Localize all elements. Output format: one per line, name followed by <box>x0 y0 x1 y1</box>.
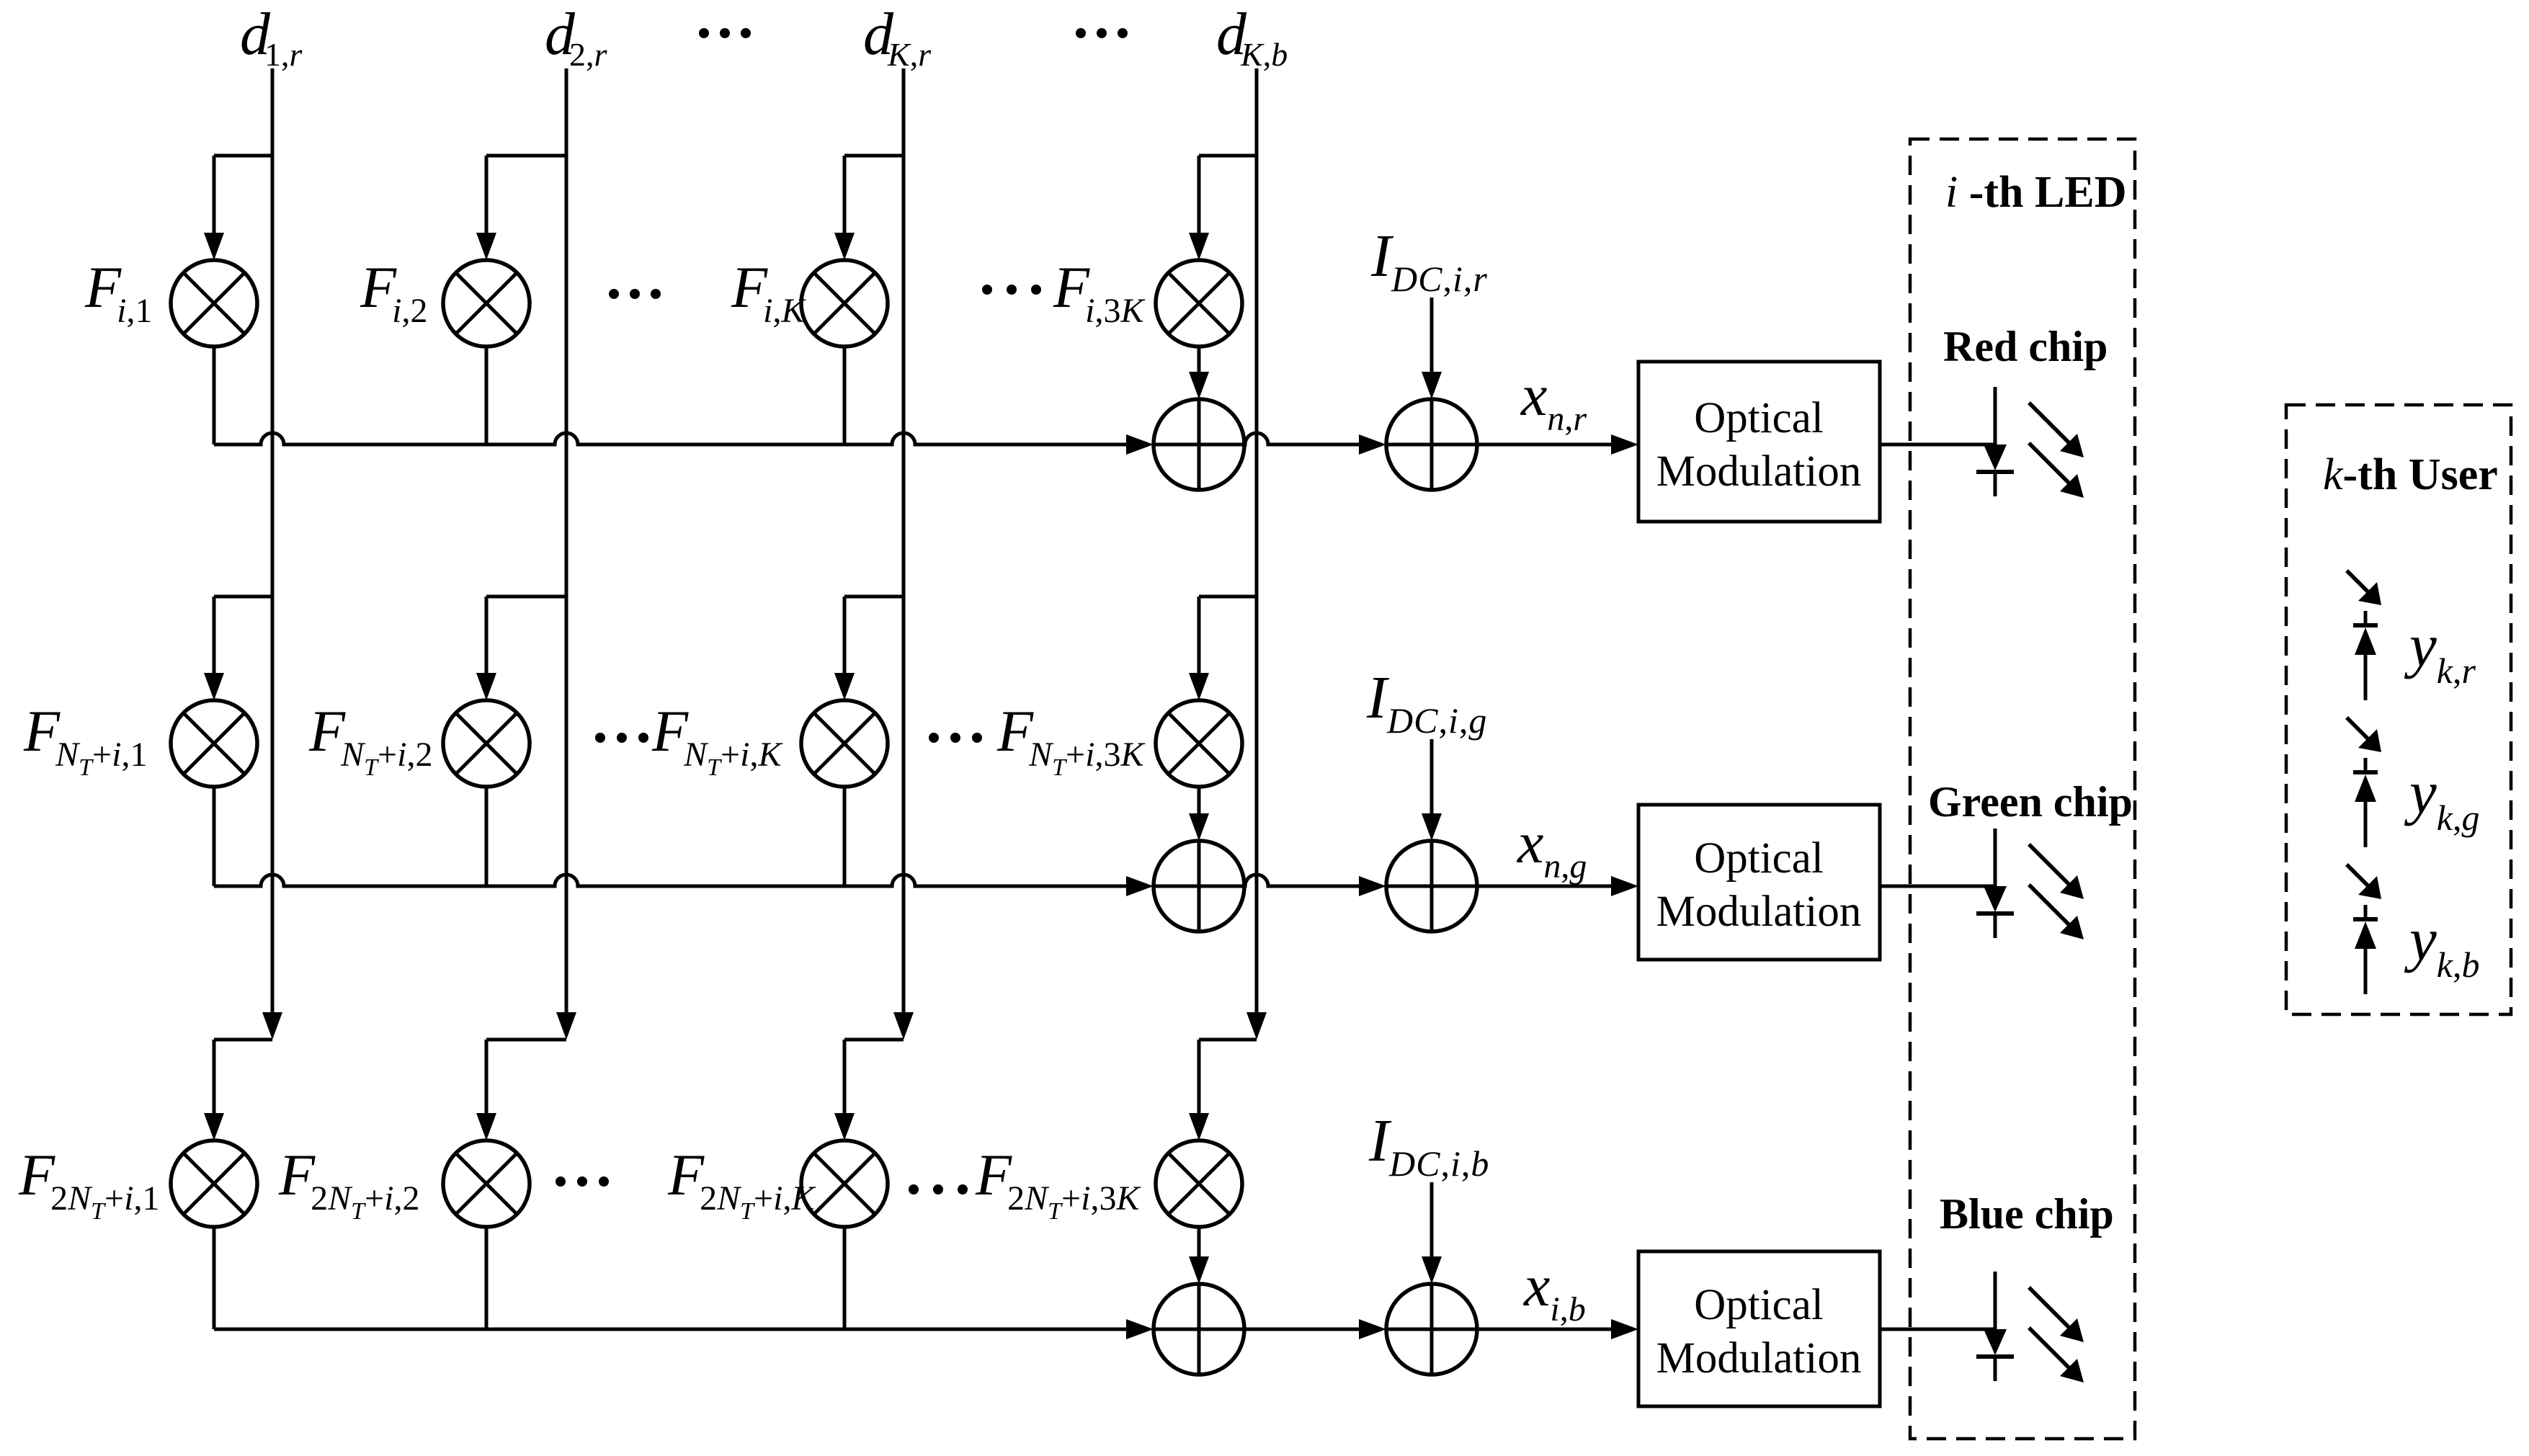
label i-th LED <box>1945 168 2127 217</box>
svg-text:Modulation: Modulation <box>1656 447 1862 496</box>
label F_i,K <box>731 254 806 330</box>
wire I_DC input into adder row1 <box>1422 298 1442 399</box>
label F_i,1 <box>84 254 152 330</box>
dots between d_K,r and d_K,b <box>1076 28 1128 38</box>
wire d1,r vertical input line <box>262 68 282 1040</box>
multiplier F_NT+i,K <box>801 700 888 787</box>
dots row3 right <box>909 1184 968 1194</box>
summer row3 <box>1154 1284 1244 1375</box>
svg-text:IDC,i,r: IDC,i,r <box>1370 223 1488 299</box>
node d_2,r label <box>545 1 608 73</box>
svg-text:Modulation: Modulation <box>1656 888 1862 936</box>
wire branch row1 col1 from d-line into multiplier <box>204 156 272 260</box>
wire optical modulation row1 output to LED <box>1880 443 1995 447</box>
label Red chip <box>1943 323 2107 370</box>
svg-text:d2,r: d2,r <box>545 1 608 73</box>
svg-text:FNT+i,K: FNT+i,K <box>651 698 783 781</box>
svg-text:Green chip: Green chip <box>1928 778 2133 826</box>
svg-text:IDC,i,g: IDC,i,g <box>1366 664 1487 741</box>
svg-text:F2NT+i,3K: F2NT+i,3K <box>975 1142 1141 1225</box>
svg-text:dK,b: dK,b <box>1216 1 1288 73</box>
wire summer3 to adder3 <box>1244 1319 1386 1339</box>
block Optical Modulation row3 <box>1638 1251 1880 1406</box>
svg-text:Optical: Optical <box>1694 1281 1824 1329</box>
wire adder row3 to optical modulation box <box>1477 1319 1638 1339</box>
label F_NT+i,2 <box>308 698 432 781</box>
wire multiplier F_NT+i,2 output down to bus <box>485 787 489 886</box>
summer row1 <box>1154 399 1244 490</box>
svg-text:k-th User: k-th User <box>2323 450 2498 499</box>
multiplier F_i,1 <box>171 260 257 347</box>
wire dK,r vertical input line <box>893 68 914 1040</box>
svg-text:xn,g: xn,g <box>1517 810 1587 885</box>
wire branch row1 col2 from d-line into multiplier <box>476 156 566 260</box>
svg-text:yk,g: yk,g <box>2404 759 2479 838</box>
multiplier F_2NT+i,K <box>801 1140 888 1227</box>
svg-text:xn,r: xn,r <box>1520 362 1587 438</box>
svg-text:Optical: Optical <box>1694 834 1824 883</box>
svg-text:yk,r: yk,r <box>2404 612 2476 691</box>
wire multiplier F_i,1 output down to bus <box>213 347 216 445</box>
LED green chip light arrows <box>2029 844 2084 939</box>
wire bus row1 collecting line with hops <box>214 433 1154 455</box>
wire multiplier F_i,2 output down to bus <box>485 347 489 445</box>
svg-text:F2NT+i,2: F2NT+i,2 <box>278 1142 419 1225</box>
label F_i,2 <box>360 254 427 330</box>
dots row2 right <box>929 733 982 743</box>
label F_i,3K <box>1053 254 1146 330</box>
label Green chip <box>1928 778 2133 826</box>
wire I_DC input into adder row3 <box>1422 1182 1442 1284</box>
LED red chip diode <box>1976 387 2014 496</box>
label y_k,r <box>2404 612 2476 691</box>
wire I_DC input into adder row2 <box>1422 739 1442 841</box>
label I_DC,i,r <box>1370 223 1488 299</box>
node d_K,r label <box>863 1 932 73</box>
wire d2,r vertical input line <box>556 68 576 1040</box>
label I_DC,i,b <box>1368 1107 1489 1184</box>
svg-text:d1,r: d1,r <box>240 1 303 73</box>
wire branch row3 col1 from d-line into multiplier <box>204 1040 272 1140</box>
LED blue chip diode <box>1976 1272 2014 1381</box>
svg-text:FNT+i,1: FNT+i,1 <box>23 698 147 781</box>
wire bus row3 collecting line <box>214 1319 1154 1339</box>
wire branch row1 col4 from d-line into multiplier <box>1189 156 1257 260</box>
LED green chip diode <box>1976 829 2014 938</box>
wire multiplier F_2NT+i,K output down to bus <box>843 1227 847 1329</box>
dots row1 right <box>982 285 1041 295</box>
wire branch row2 col1 from d-line into multiplier <box>204 597 272 700</box>
label I_DC,i,g <box>1366 664 1487 741</box>
dots row2 left <box>595 733 648 743</box>
block Optical Modulation row2 <box>1638 805 1880 960</box>
wire multiplier F_2NT+i,3K output into summer row3 <box>1189 1227 1209 1284</box>
label F_NT+i,3K <box>996 698 1146 781</box>
node d_K,b label <box>1216 1 1288 73</box>
multiplier F_NT+i,1 <box>171 700 257 787</box>
svg-text:F2NT+i,1: F2NT+i,1 <box>18 1142 159 1225</box>
dots row1 left <box>609 289 661 299</box>
node d_1,r label <box>240 1 303 73</box>
svg-text:Modulation: Modulation <box>1656 1334 1862 1383</box>
wire multiplier F_i,K output down to bus <box>843 347 847 445</box>
wire adder row2 to optical modulation box <box>1477 876 1638 896</box>
wire summer2 to adder2 with hop <box>1244 875 1386 896</box>
label F_2NT+i,3K <box>975 1142 1141 1225</box>
svg-text:Fi,2: Fi,2 <box>360 254 427 330</box>
multiplier F_NT+i,2 <box>443 700 530 787</box>
photodiode detector y_k,r <box>2347 571 2381 700</box>
multiplier F_i,3K <box>1156 260 1242 347</box>
label k-th User <box>2323 450 2498 499</box>
LED blue chip light arrows <box>2029 1287 2084 1383</box>
multiplier F_2NT+i,2 <box>443 1140 530 1227</box>
block Optical Modulation row1 <box>1638 362 1880 522</box>
label F_2NT+i,2 <box>278 1142 419 1225</box>
wire branch row3 col2 from d-line into multiplier <box>476 1040 566 1140</box>
label F_2NT+i,K <box>667 1142 816 1225</box>
adder row1 DC bias <box>1386 399 1477 490</box>
svg-text:Fi,K: Fi,K <box>731 254 806 330</box>
label y_k,b <box>2404 906 2479 985</box>
svg-text:FNT+i,2: FNT+i,2 <box>308 698 432 781</box>
label Blue chip <box>1940 1190 2114 1238</box>
svg-text:F2NT+i,K: F2NT+i,K <box>667 1142 816 1225</box>
svg-text:FNT+i,3K: FNT+i,3K <box>996 698 1146 781</box>
svg-text:dK,r: dK,r <box>863 1 932 73</box>
multiplier F_NT+i,3K <box>1156 700 1242 787</box>
svg-text:Blue chip: Blue chip <box>1940 1190 2114 1238</box>
dots row3 left <box>556 1176 609 1187</box>
label F_2NT+i,1 <box>18 1142 159 1225</box>
svg-text:xi,b: xi,b <box>1523 1253 1586 1328</box>
LED red chip light arrows <box>2029 403 2084 498</box>
node x_n,r label <box>1520 362 1587 438</box>
multiplier F_2NT+i,3K <box>1156 1140 1242 1227</box>
dots between d_2,r and d_K,r <box>699 28 751 38</box>
multiplier F_2NT+i,1 <box>171 1140 257 1227</box>
wire multiplier F_NT+i,3K output into summer row2 <box>1189 787 1209 841</box>
wire multiplier F_NT+i,1 output down to bus <box>213 787 216 886</box>
wire multiplier F_2NT+i,2 output down to bus <box>485 1227 489 1329</box>
svg-text:i -th LED: i -th LED <box>1945 168 2127 217</box>
wire optical modulation row2 output to LED <box>1880 885 1995 888</box>
wire branch row2 col4 from d-line into multiplier <box>1189 597 1257 700</box>
wire branch row2 col3 from d-line into multiplier <box>834 597 904 700</box>
svg-text:Fi,3K: Fi,3K <box>1053 254 1146 330</box>
svg-text:Fi,1: Fi,1 <box>84 254 152 330</box>
wire branch row3 col4 from d-line into multiplier <box>1189 1040 1257 1140</box>
svg-text:Optical: Optical <box>1694 394 1824 442</box>
wire multiplier F_i,3K output into summer row1 <box>1189 347 1209 399</box>
adder row3 DC bias <box>1386 1284 1477 1375</box>
wire optical modulation row3 output to LED <box>1880 1328 1995 1331</box>
wire summer1 to adder1 with hop <box>1244 433 1386 455</box>
label y_k,g <box>2404 759 2479 838</box>
wire multiplier F_2NT+i,1 output down to bus <box>213 1227 216 1329</box>
wire branch row1 col3 from d-line into multiplier <box>834 156 904 260</box>
label F_NT+i,1 <box>23 698 147 781</box>
summer row2 <box>1154 841 1244 932</box>
svg-text:IDC,i,b: IDC,i,b <box>1368 1107 1489 1184</box>
dashed box k-th User <box>2286 405 2511 1014</box>
multiplier F_i,K <box>801 260 888 347</box>
wire bus row2 collecting line with hops <box>214 875 1154 896</box>
node x_n,g label <box>1517 810 1587 885</box>
wire dK,b vertical input line <box>1246 68 1267 1040</box>
node x_i,b label <box>1523 1253 1586 1328</box>
adder row2 DC bias <box>1386 841 1477 932</box>
multiplier F_i,2 <box>443 260 530 347</box>
svg-text:yk,b: yk,b <box>2404 906 2479 985</box>
wire multiplier F_NT+i,K output down to bus <box>843 787 847 886</box>
wire branch row3 col3 from d-line into multiplier <box>834 1040 904 1140</box>
dashed box i-th LED <box>1910 139 2135 1439</box>
photodiode detector y_k,b <box>2347 865 2381 994</box>
wire adder row1 to optical modulation box <box>1477 434 1638 455</box>
svg-text:Red chip: Red chip <box>1943 323 2107 370</box>
wire branch row2 col2 from d-line into multiplier <box>476 597 566 700</box>
photodiode detector y_k,g <box>2347 718 2381 847</box>
label F_NT+i,K <box>651 698 783 781</box>
